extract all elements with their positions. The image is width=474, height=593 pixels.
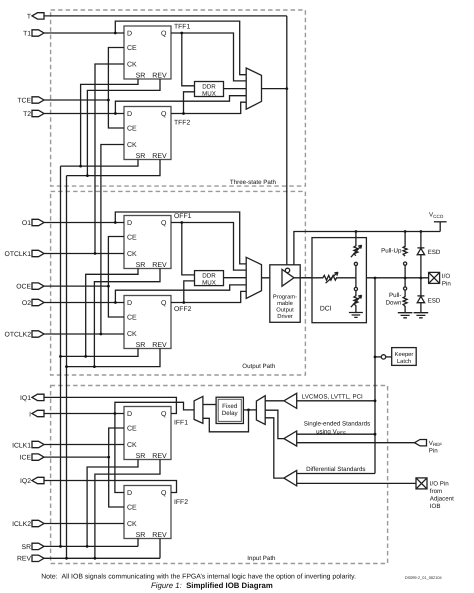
wire T2 row into TFF2 D: [44, 113, 124, 115]
wire three-state control down to output driver: [286, 16, 288, 268]
wire differential buffer lower input to adjacent pad: [297, 482, 416, 484]
svg-text:Delay: Delay: [222, 410, 239, 417]
wire IQ1 row from IFF1 Q: [44, 397, 176, 413]
wire OFF1 Q to DDR MUX: [182, 223, 195, 275]
svg-text:REV: REV: [17, 556, 31, 563]
svg-text:REV: REV: [152, 73, 167, 80]
mux (input standard select): [256, 396, 265, 425]
pin T1: [23, 30, 44, 38]
svg-text:MUX: MUX: [202, 90, 216, 97]
flip-flop OFF2: [124, 296, 171, 350]
wire pad net down to input buffers: [374, 278, 376, 474]
svg-text:O2: O2: [22, 300, 31, 307]
svg-text:SR: SR: [136, 262, 146, 269]
wire ICE row: [44, 456, 109, 458]
flip-flop TFF2: [124, 107, 171, 161]
svg-text:D: D: [127, 31, 132, 38]
svg-text:OTCLK2: OTCLK2: [5, 331, 32, 338]
svg-text:OFF2: OFF2: [174, 306, 192, 313]
pin T2: [23, 110, 44, 118]
svg-text:Figure 1: Simplified IOB Diag: Figure 1: Simplified IOB Diagram: [151, 581, 273, 590]
svg-text:Q: Q: [161, 300, 167, 307]
SR bus vertical: [60, 166, 62, 546]
wire TFF1 Q to DDR MUX: [182, 33, 195, 86]
wire OCE riser to CE pins: [108, 237, 124, 318]
IFF2 REV stub to REV row: [159, 539, 161, 559]
REV bus vertical: [66, 176, 68, 559]
wire differential buffer upper input: [297, 473, 375, 475]
svg-text:Single-ended Standards: Single-ended Standards: [304, 421, 370, 428]
svg-text:Pin: Pin: [429, 447, 439, 454]
wire ICLK2 row into IFF2 CK: [44, 523, 124, 525]
svg-text:T: T: [27, 13, 31, 20]
Pull-Down resistor: [386, 278, 408, 313]
pin ICE: [20, 454, 44, 462]
wire DDR MUX out to mux: [224, 277, 247, 279]
svg-text:OCE: OCE: [16, 284, 31, 291]
svg-text:I: I: [29, 411, 31, 418]
input buffer LVCMOS: [284, 393, 297, 408]
wire mux output / T bypass junction: [262, 88, 287, 90]
svg-text:Differential Standards: Differential Standards: [306, 466, 365, 473]
pin OCE: [16, 283, 44, 291]
svg-text:DS099-2_01_082104: DS099-2_01_082104: [405, 575, 443, 580]
wire LVCMOS buffer output: [265, 400, 284, 402]
svg-text:I/O: I/O: [442, 273, 450, 280]
I/O pad from adjacent IOB: [416, 478, 454, 510]
svg-text:REV: REV: [152, 153, 167, 160]
wire differential buffer output: [265, 418, 284, 478]
svg-text:Pin: Pin: [442, 280, 452, 287]
wire VCCO rail: [294, 232, 440, 265]
driver tri-state bubble: [285, 268, 289, 272]
OFF2 REV return: [67, 349, 161, 367]
svg-text:IOB: IOB: [430, 503, 441, 510]
svg-text:TFF1: TFF1: [174, 24, 190, 31]
wire TFF1 Q to mux: [171, 33, 246, 81]
mux (three-state select): [246, 68, 261, 109]
wire T1 branch riser: [115, 21, 246, 75]
wire REV row: [44, 557, 160, 559]
svg-text:Program-: Program-: [273, 294, 297, 300]
OFF1 SR return: [86, 269, 138, 357]
TFF2 SR return: [61, 160, 139, 167]
DCI pull-up resistor (variable): [351, 232, 362, 279]
wire ICLK1 row into IFF1 CK: [44, 444, 124, 446]
dashed box Input Path section: [51, 386, 388, 564]
svg-text:T2: T2: [23, 111, 31, 118]
svg-text:Pull-: Pull-: [389, 292, 401, 299]
wire standard mux output: [243, 409, 256, 411]
DCI block: [312, 238, 366, 323]
wire OTCLK1 row into OFF1 CK and bus up to TFF1 CK: [44, 253, 124, 255]
svg-text:SR: SR: [136, 453, 146, 460]
wire TCE row: [44, 99, 108, 101]
svg-text:Input Path: Input Path: [247, 555, 276, 562]
wire VREF buffer lower input to VREF pin: [297, 442, 415, 444]
svg-text:TFF2: TFF2: [174, 120, 190, 127]
svg-text:SR: SR: [136, 73, 146, 80]
svg-text:Adjacent: Adjacent: [430, 496, 454, 503]
wire T2 branch to mux: [115, 96, 246, 114]
driver buffer triangle: [282, 269, 294, 286]
pin I: [29, 410, 44, 418]
svg-text:CE: CE: [127, 235, 137, 242]
svg-text:Output: Output: [276, 307, 294, 314]
pin IQ1: [20, 394, 44, 402]
wire OFF2 Q to DDR MUX: [184, 281, 195, 303]
svg-text:D: D: [127, 490, 132, 497]
svg-text:LVCMOS, LVTTL, PCI: LVCMOS, LVTTL, PCI: [302, 394, 363, 401]
svg-text:DDR: DDR: [202, 83, 216, 90]
flip-flop IFF2: [124, 486, 171, 540]
svg-text:CE: CE: [127, 505, 137, 512]
svg-text:D: D: [127, 220, 132, 227]
wire TFF2 Q to DDR MUX: [184, 92, 195, 114]
svg-text:Down: Down: [386, 299, 402, 306]
IFF1 REV return: [95, 460, 160, 559]
OFF1 REV return: [94, 269, 160, 367]
svg-text:Keeper: Keeper: [395, 352, 414, 358]
svg-text:Note: All IOB signals communi: Note: All IOB signals communicating with…: [41, 574, 356, 581]
svg-text:OFF1: OFF1: [174, 213, 192, 220]
ESD diode upper: [417, 232, 441, 279]
svg-text:T1: T1: [23, 30, 31, 37]
wire SR row: [44, 545, 138, 547]
svg-text:Latch: Latch: [397, 358, 411, 365]
wire output mux to driver: [262, 277, 283, 279]
wire VREF buffer output: [265, 410, 284, 438]
pin REV: [17, 555, 44, 563]
svg-text:DDR: DDR: [202, 272, 216, 279]
flip-flop OFF1: [124, 216, 171, 270]
svg-text:CK: CK: [127, 521, 137, 528]
wire OFF2 Q to mux: [171, 291, 246, 302]
wire VREF buffer upper input: [297, 433, 375, 435]
svg-text:CE: CE: [127, 315, 137, 322]
wire ICE riser to CE pins: [109, 428, 124, 507]
svg-text:from: from: [430, 488, 442, 495]
wire O1 branch riser to mux: [115, 212, 246, 264]
svg-text:Fixed: Fixed: [222, 403, 238, 410]
wire OFF1 Q to mux: [171, 223, 246, 271]
svg-text:CK: CK: [127, 251, 137, 258]
pin T: [27, 13, 44, 21]
svg-text:CK: CK: [127, 442, 137, 449]
pin TCE: [17, 97, 44, 105]
pin SR: [22, 543, 44, 551]
DDR MUX (three-state path): [195, 82, 224, 98]
input buffer single-ended VREF: [284, 431, 297, 446]
wire O2 branch to mux: [115, 285, 246, 303]
wire OTCLK2 row into OFF2 CK and bus up to TFF2 CK: [44, 333, 124, 335]
svg-text:ESD: ESD: [428, 249, 441, 256]
svg-text:REV: REV: [152, 532, 167, 539]
DCI series resistor: [300, 272, 356, 283]
svg-text:D: D: [127, 111, 132, 118]
svg-text:OTCLK1: OTCLK1: [5, 251, 32, 258]
dashed box Output Path section: [51, 191, 306, 375]
wire DDR MUX out to mux: [224, 88, 247, 90]
svg-text:Pull-Up: Pull-Up: [381, 248, 402, 255]
svg-text:ICLK2: ICLK2: [12, 521, 31, 528]
Fixed Delay block: [216, 397, 243, 423]
Keeper Latch block: [392, 348, 417, 366]
svg-text:IQ2: IQ2: [20, 478, 31, 485]
svg-text:Q: Q: [161, 411, 167, 418]
pin OTCLK2: [5, 331, 44, 339]
wire T1 row into TFF1 D: [44, 32, 124, 34]
svg-text:ICE: ICE: [20, 455, 32, 462]
svg-text:ESD: ESD: [428, 297, 441, 304]
wire driver output / IO line: [294, 277, 429, 279]
svg-text:REV: REV: [152, 342, 167, 349]
wire IQ2 row from IFF2 Q: [44, 481, 177, 493]
wire input net to I pin and IFF D inputs: [115, 402, 194, 492]
VCCO supply symbol: [429, 212, 447, 232]
svg-text:Q: Q: [161, 490, 167, 497]
svg-text:I/O Pin: I/O Pin: [430, 481, 449, 488]
svg-text:REV: REV: [152, 453, 167, 460]
svg-text:SR: SR: [22, 544, 32, 551]
svg-text:IFF1: IFF1: [174, 420, 188, 427]
mux (output select): [246, 257, 261, 298]
pin ICLK1: [12, 441, 44, 449]
wire keeper latch connection: [375, 356, 381, 358]
svg-text:SR: SR: [136, 342, 146, 349]
wire OCE row: [44, 285, 108, 287]
wire TFF2 Q to mux: [171, 102, 246, 113]
svg-text:CK: CK: [127, 331, 137, 338]
svg-text:DCI: DCI: [320, 306, 332, 313]
pin O2: [22, 299, 44, 307]
svg-text:Three-state Path: Three-state Path: [230, 179, 277, 186]
TFF1 REV return: [87, 79, 160, 176]
svg-text:SR: SR: [136, 532, 146, 539]
svg-text:CE: CE: [127, 126, 137, 133]
dashed box Three-state Path section: [51, 10, 306, 186]
ground (pull-down): [398, 313, 413, 318]
wire O2 row into OFF2 D: [44, 302, 124, 304]
TFF1 SR return: [81, 79, 138, 166]
ground (ESD): [414, 313, 429, 318]
mux (delay select): [194, 396, 203, 423]
svg-text:CK: CK: [127, 62, 137, 69]
IFF1 SR return: [87, 460, 138, 547]
svg-text:Q: Q: [161, 31, 167, 38]
svg-text:CE: CE: [127, 426, 137, 433]
pin IQ2: [20, 477, 44, 485]
wire fixed delay output: [203, 404, 216, 406]
svg-text:Q: Q: [161, 111, 167, 118]
pin ICLK2: [12, 520, 44, 528]
DCI pull-down resistor (variable): [351, 278, 362, 313]
svg-text:D: D: [127, 300, 132, 307]
svg-text:MUX: MUX: [202, 279, 216, 286]
svg-text:O1: O1: [22, 220, 31, 227]
wire O1 row into OFF1 D: [44, 222, 124, 224]
Programmable Output Driver block: [270, 265, 300, 323]
svg-text:REV: REV: [152, 262, 167, 269]
ESD diode lower: [417, 278, 441, 313]
flip-flop TFF1: [124, 26, 171, 80]
Pull-Up resistor: [381, 232, 407, 279]
DDR MUX (output path): [195, 271, 224, 287]
wire T row: [44, 15, 287, 17]
svg-text:ICLK1: ICLK1: [12, 442, 31, 449]
svg-text:Driver: Driver: [277, 313, 293, 320]
svg-text:CK: CK: [127, 142, 137, 149]
svg-text:IFF2: IFF2: [174, 499, 188, 506]
svg-text:IQ1: IQ1: [20, 395, 31, 402]
VREF pin: [415, 440, 443, 455]
wire TCE riser to CE pins: [108, 48, 124, 129]
pin OTCLK1: [5, 250, 44, 258]
svg-text:D: D: [127, 411, 132, 418]
flip-flop IFF1: [124, 407, 171, 461]
svg-text:Q: Q: [161, 220, 167, 227]
svg-text:Output Path: Output Path: [242, 363, 276, 370]
TFF2 REV return: [67, 160, 161, 176]
svg-text:CE: CE: [127, 45, 137, 52]
svg-text:mable: mable: [277, 300, 293, 307]
svg-text:SR: SR: [136, 153, 146, 160]
IFF2 SR stub to SR row: [137, 539, 139, 547]
I/O pad: [429, 272, 452, 287]
svg-text:TCE: TCE: [17, 97, 31, 104]
pin O1: [22, 219, 44, 227]
input buffer differential: [284, 470, 297, 486]
wire delay bypass: [203, 410, 249, 432]
OFF2 SR return: [61, 349, 139, 357]
wire LVCMOS buffer input: [297, 400, 375, 402]
ground (DCI): [349, 313, 363, 318]
